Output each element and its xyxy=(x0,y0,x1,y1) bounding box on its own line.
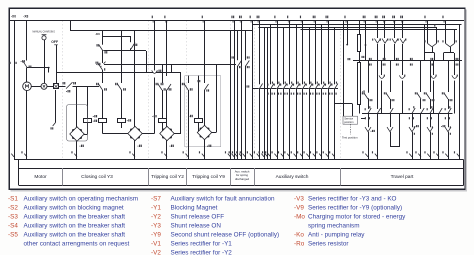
svg-text:-X0: -X0 xyxy=(11,14,16,18)
svg-text:-K0: -K0 xyxy=(95,32,100,36)
svg-text:Series rectifier for -Y3 and -: Series rectifier for -Y3 and - KO xyxy=(308,195,397,202)
svg-text:Series rectifier for -Y9 (opti: Series rectifier for -Y9 (optionally) xyxy=(308,204,402,211)
svg-text:Closing coil Y3: Closing coil Y3 xyxy=(81,174,113,180)
svg-text:Series rectifier for -Y1: Series rectifier for -Y1 xyxy=(171,241,233,248)
svg-text:Charging motor for stored - en: Charging motor for stored - energy xyxy=(308,213,406,220)
svg-text:Second shunt release OFF (opti: Second shunt release OFF (optionally) xyxy=(171,232,280,239)
svg-text:Auxiliary switch for fault ann: Auxiliary switch for fault annunciation xyxy=(171,195,275,202)
svg-text:Blocking Magnet: Blocking Magnet xyxy=(171,204,218,211)
svg-text:Auxiliary switch: Auxiliary switch xyxy=(276,174,309,180)
svg-text:Shunt release ON: Shunt release ON xyxy=(171,222,222,229)
svg-text:-Y9: -Y9 xyxy=(151,232,161,239)
svg-text:Anti - pumping relay: Anti - pumping relay xyxy=(308,232,365,239)
svg-text:position: position xyxy=(344,120,354,124)
svg-text:-S2: -S2 xyxy=(8,204,18,211)
svg-text:Auxiliary switch on the breake: Auxiliary switch on the breaker shaft xyxy=(24,232,126,239)
svg-text:Tripping coil Y2: Tripping coil Y2 xyxy=(151,174,184,180)
svg-text:-S3: -S3 xyxy=(8,213,18,220)
svg-text:-Y1: -Y1 xyxy=(151,204,161,211)
svg-text:Auxiliary switch on blocking m: Auxiliary switch on blocking magnet xyxy=(24,204,124,211)
svg-text:-S1: -S1 xyxy=(8,195,18,202)
svg-text:-S5: -S5 xyxy=(8,232,18,239)
svg-text:OFF: OFF xyxy=(51,40,58,44)
svg-text:-V2: -V2 xyxy=(151,250,161,255)
svg-text:Auxiliary switch on the breake: Auxiliary switch on the breaker shaft xyxy=(24,222,126,229)
svg-text:Tripping coil Y9: Tripping coil Y9 xyxy=(192,174,225,180)
svg-text:Test position: Test position xyxy=(342,136,358,140)
svg-text:-S7: -S7 xyxy=(151,195,161,202)
svg-text:Motor: Motor xyxy=(34,174,47,180)
svg-text:-Y2: -Y2 xyxy=(151,213,161,220)
svg-text:Series resistor: Series resistor xyxy=(308,241,349,248)
svg-text:-S4: -S4 xyxy=(8,222,18,229)
svg-text:Auxiliary switch on operating: Auxiliary switch on operating mechanism xyxy=(24,195,139,202)
svg-text:Shunt release OFF: Shunt release OFF xyxy=(171,213,225,220)
svg-text:Service: Service xyxy=(344,117,353,121)
svg-text:-V9: -V9 xyxy=(294,204,304,211)
svg-text:-V1: -V1 xyxy=(151,241,161,248)
svg-text:-Ko: -Ko xyxy=(294,232,304,239)
svg-text:Series rectifier for -Y2: Series rectifier for -Y2 xyxy=(171,250,233,255)
svg-text:MANUAL CHARGING: MANUAL CHARGING xyxy=(33,31,56,34)
svg-text:discharged: discharged xyxy=(235,177,250,181)
svg-text:other contact arrengments on r: other contact arrengments on request xyxy=(24,241,130,248)
svg-text:Travel part: Travel part xyxy=(391,174,414,180)
svg-text:-Mo: -Mo xyxy=(294,213,305,220)
svg-text:-V3: -V3 xyxy=(294,195,304,202)
svg-text:spring mechanism: spring mechanism xyxy=(308,222,359,229)
svg-text:-X8: -X8 xyxy=(23,14,28,18)
svg-text:-Ro: -Ro xyxy=(294,241,305,248)
svg-text:Auxiliary switch on the breake: Auxiliary switch on the breaker shaft xyxy=(24,213,126,220)
svg-text:-Y3: -Y3 xyxy=(151,222,161,229)
